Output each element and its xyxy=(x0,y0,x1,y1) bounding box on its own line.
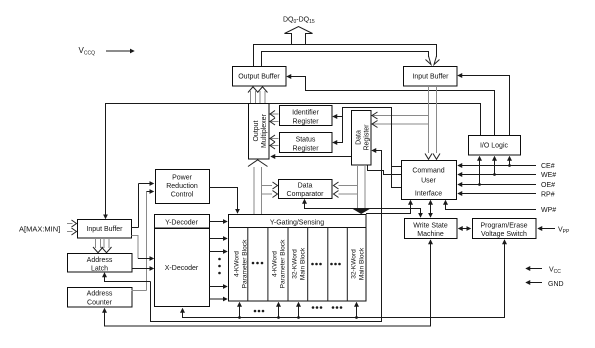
block Y-Decoder xyxy=(155,215,210,229)
wire VCCQ arrow xyxy=(106,50,134,52)
wire comparator to WSM control line xyxy=(305,200,421,218)
block X-Decoder xyxy=(155,229,210,307)
svg-text:Data: Data xyxy=(298,183,313,190)
wire DQ bus hollow arrow xyxy=(285,27,313,46)
svg-text:Main Block: Main Block xyxy=(359,247,366,280)
svg-text:Identifier: Identifier xyxy=(292,110,320,117)
svg-text:Command: Command xyxy=(412,168,444,175)
svg-text:Y-Decoder: Y-Decoder xyxy=(165,220,198,227)
wire data register to mux xyxy=(271,156,351,158)
svg-text:Latch: Latch xyxy=(91,266,108,273)
svg-text:Register: Register xyxy=(292,119,319,126)
wire CUI feedback to latch bottom xyxy=(105,273,151,282)
svg-text:WP#: WP# xyxy=(541,207,556,214)
wire I/O logic to input buffer right xyxy=(458,76,510,136)
block I/O Logic xyxy=(469,136,521,156)
wire I/O logic to output buffer right xyxy=(287,77,495,136)
block 32-KWord Main Block 1 xyxy=(292,247,307,280)
wire input buffer hollow stem to CUI xyxy=(425,86,440,159)
svg-text:Machine: Machine xyxy=(417,231,444,238)
wire array column feeds from bus xyxy=(238,303,358,319)
wire hollow bus data register to array with comparator taps xyxy=(334,165,371,214)
wire I/O logic taps from CE#/WE#/OE# xyxy=(478,157,511,186)
wire OE# line xyxy=(458,184,536,186)
svg-text:Status: Status xyxy=(296,137,316,144)
wire GND input xyxy=(526,282,542,284)
block Output Multiplexer xyxy=(249,104,270,160)
node bus ellipsis dots under col2 xyxy=(254,310,265,313)
svg-text:Main Block: Main Block xyxy=(300,247,307,280)
wire array status line to CUI xyxy=(366,201,411,214)
wire PRC to array top xyxy=(210,188,238,214)
wire hollow arrow mux to output buffer 1 xyxy=(248,87,258,103)
block Data Register xyxy=(352,111,372,166)
block 4-KWord Parameter Block 2 xyxy=(272,239,287,288)
block Data Comparator xyxy=(279,180,333,199)
wire Y-decoder to array xyxy=(210,221,228,223)
svg-text:4-KWord: 4-KWord xyxy=(234,251,241,277)
node bus ellipsis dots under col6 xyxy=(332,306,343,309)
wire hollow arrow input buffer to address latch 2 xyxy=(102,238,112,253)
wire hollow arrows bus to comparator left xyxy=(262,182,278,198)
node array ellipsis dots col5 xyxy=(311,263,322,266)
block Write State Machine xyxy=(405,219,458,239)
svg-text:User: User xyxy=(421,178,436,185)
wire output buffer top to input buffer top (outer) xyxy=(254,45,440,67)
wire hollow arrow mux to output buffer 2 xyxy=(258,87,268,103)
wire WSM to address counter line L3 xyxy=(105,240,431,326)
svg-text:Control: Control xyxy=(171,192,194,199)
svg-text:Parameter Block: Parameter Block xyxy=(242,239,249,288)
svg-text:Data: Data xyxy=(356,130,363,145)
wire WE# line xyxy=(458,174,536,176)
wire staircase data register to CUI (upper) xyxy=(368,165,402,175)
svg-text:Power: Power xyxy=(172,175,193,182)
block Program/Erase Voltage Switch xyxy=(473,219,537,239)
wire hollow arrows identifier register to mux xyxy=(270,111,279,126)
svg-text:Register: Register xyxy=(292,146,319,153)
svg-text:Voltage Switch: Voltage Switch xyxy=(481,231,527,238)
wire long control line to I/O logic and address input buffer xyxy=(106,104,481,219)
wire VPP input xyxy=(538,228,555,230)
wire CUI to identifier/status registers xyxy=(333,108,401,167)
wire output buffer top to input buffer top (inner) xyxy=(262,52,432,67)
block 32-KWord Main Block 2 xyxy=(351,247,366,280)
wire register readback vertical to array bottom bus L2 xyxy=(151,151,382,322)
svg-text:Multiplexer: Multiplexer xyxy=(261,113,268,148)
svg-text:32-KWord: 32-KWord xyxy=(292,249,299,279)
wire hollow bus mux stem to array xyxy=(248,160,268,214)
svg-text:32-KWord: 32-KWord xyxy=(351,249,358,279)
svg-text:Parameter Block: Parameter Block xyxy=(280,239,287,288)
svg-text:A[MAX:MIN]: A[MAX:MIN] xyxy=(19,225,60,234)
wire address input arrows xyxy=(67,220,77,235)
block Power Reduction Control xyxy=(156,170,210,204)
svg-text:Y-Gating/Sensing: Y-Gating/Sensing xyxy=(270,220,324,227)
wire array column dividers xyxy=(248,228,347,302)
node X-decoder dots xyxy=(218,258,221,275)
node array ellipsis dots col2 xyxy=(252,262,264,265)
wire WSM-PEVS bidirectional xyxy=(459,228,471,230)
wire WP# to CUI xyxy=(446,201,537,210)
svg-text:Output: Output xyxy=(253,120,260,141)
wire hollow bus input stem to data register xyxy=(372,112,429,128)
block Input Buffer (data) xyxy=(404,67,458,87)
svg-text:Output Buffer: Output Buffer xyxy=(238,74,280,81)
block 4-KWord Parameter Block 1 xyxy=(234,239,249,288)
block Address Latch xyxy=(68,254,133,273)
wire CE# line xyxy=(458,165,536,167)
svg-text:CE#: CE# xyxy=(541,163,555,170)
svg-text:Interface: Interface xyxy=(415,191,442,198)
block Input Buffer (address) xyxy=(78,220,132,239)
node bus ellipsis dots under col5 xyxy=(312,306,323,309)
node array ellipsis dots col6 xyxy=(330,263,341,266)
svg-text:WE#: WE# xyxy=(541,172,556,179)
svg-text:Program/Erase: Program/Erase xyxy=(480,223,527,230)
svg-text:Input Buffer: Input Buffer xyxy=(86,226,123,233)
wire register-select branch to CUI (lower) xyxy=(392,167,402,188)
block Identifier Register xyxy=(280,106,333,126)
wire latch stub to X-decoder xyxy=(132,268,154,270)
svg-text:I/O Logic: I/O Logic xyxy=(480,143,509,150)
svg-text:Reduction: Reduction xyxy=(166,183,198,190)
wire X-decoder to array lines xyxy=(210,239,228,300)
wire RP# line xyxy=(458,193,536,195)
svg-text:Write State: Write State xyxy=(413,223,448,230)
svg-text:Address: Address xyxy=(87,257,113,264)
block Command User Interface xyxy=(402,161,457,200)
svg-text:GND: GND xyxy=(548,281,564,288)
wire VCC input xyxy=(526,268,542,270)
wire hollow arrows status register to mux xyxy=(270,135,279,149)
block Output Buffer xyxy=(233,67,287,87)
svg-text:Register: Register xyxy=(364,124,371,151)
wire input buffer stub to PRC riser xyxy=(132,184,154,228)
block Address Counter xyxy=(68,288,133,308)
wire CUI-WSM bidirectional xyxy=(430,201,432,218)
wire input buffer lower stub down to latch stub xyxy=(132,236,154,259)
wire array bottom bus L1 X-decoder to PEVS xyxy=(183,240,505,318)
svg-text:RP#: RP# xyxy=(541,192,555,199)
block Y-Gating/Sensing array xyxy=(229,215,367,302)
svg-text:Comparator: Comparator xyxy=(287,191,325,198)
svg-text:4-KWord: 4-KWord xyxy=(272,251,279,277)
svg-text:Input Buffer: Input Buffer xyxy=(412,74,449,81)
wire hollow arrow input buffer to address latch 1 xyxy=(93,238,103,253)
svg-text:X-Decoder: X-Decoder xyxy=(165,265,199,272)
svg-text:Counter: Counter xyxy=(87,300,113,307)
block Status Register xyxy=(280,133,333,153)
svg-text:Address: Address xyxy=(87,291,113,298)
wire latch riser to PRC xyxy=(132,192,154,291)
svg-text:OE#: OE# xyxy=(541,182,555,189)
